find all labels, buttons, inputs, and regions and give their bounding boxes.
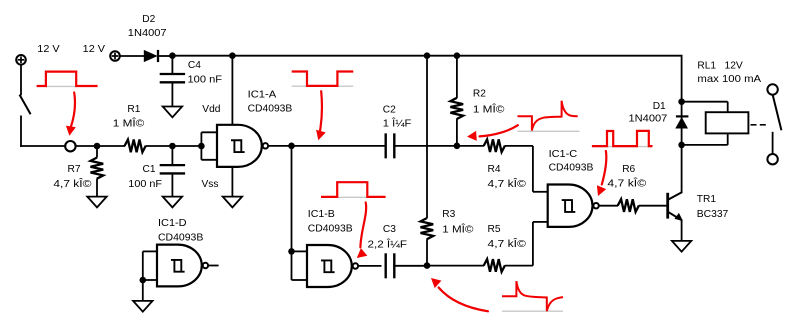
svg-text:IC1-D: IC1-D <box>158 218 187 229</box>
svg-text:100 nF: 100 nF <box>188 74 223 85</box>
svg-text:R1: R1 <box>127 104 140 115</box>
svg-text:1 MÎ©: 1 MÎ© <box>442 223 474 236</box>
svg-text:CD4093B: CD4093B <box>549 162 594 173</box>
svg-text:CD4093B: CD4093B <box>158 233 203 244</box>
svg-text:1 Î¼F: 1 Î¼F <box>383 117 412 130</box>
svg-text:IC1-C: IC1-C <box>549 149 578 160</box>
svg-text:4,7 kÎ©: 4,7 kÎ© <box>53 177 92 190</box>
svg-text:2,2 Î¼F: 2,2 Î¼F <box>368 237 408 250</box>
svg-text:CD4093B: CD4093B <box>308 223 353 234</box>
svg-text:C2: C2 <box>383 104 396 115</box>
svg-text:CD4093B: CD4093B <box>248 104 293 115</box>
svg-text:IC1-A: IC1-A <box>248 90 277 101</box>
svg-text:12 V: 12 V <box>83 44 106 55</box>
svg-text:R5: R5 <box>488 224 501 235</box>
svg-text:1N4007: 1N4007 <box>128 28 167 39</box>
svg-text:C1: C1 <box>143 164 156 175</box>
svg-text:R2: R2 <box>473 89 486 100</box>
svg-text:C4: C4 <box>188 60 201 71</box>
svg-text:max 100 mA: max 100 mA <box>697 74 761 85</box>
svg-text:12 V: 12 V <box>37 44 60 55</box>
svg-text:R3: R3 <box>442 209 455 220</box>
svg-text:1 MÎ©: 1 MÎ© <box>113 116 145 129</box>
svg-text:4,7 kÎ©: 4,7 kÎ© <box>488 177 527 190</box>
svg-text:R6: R6 <box>622 164 635 175</box>
svg-text:C3: C3 <box>383 224 396 235</box>
svg-text:Vdd: Vdd <box>202 104 220 115</box>
svg-text:RL1: RL1 <box>697 61 716 72</box>
svg-text:R4: R4 <box>488 164 501 175</box>
svg-text:BC337: BC337 <box>697 209 729 220</box>
svg-text:R7: R7 <box>68 164 81 175</box>
svg-text:4,7 kÎ©: 4,7 kÎ© <box>607 177 646 190</box>
svg-text:4,7 kÎ©: 4,7 kÎ© <box>488 237 527 250</box>
svg-text:100 nF: 100 nF <box>128 179 162 190</box>
svg-text:IC1-B: IC1-B <box>308 209 335 220</box>
svg-text:D2: D2 <box>142 14 155 25</box>
svg-text:1 MÎ©: 1 MÎ© <box>473 102 505 115</box>
svg-text:Vss: Vss <box>202 179 219 190</box>
svg-text:TR1: TR1 <box>697 194 717 205</box>
svg-text:D1: D1 <box>653 101 666 112</box>
svg-text:1N4007: 1N4007 <box>629 114 668 125</box>
svg-text:12V: 12V <box>725 61 743 72</box>
